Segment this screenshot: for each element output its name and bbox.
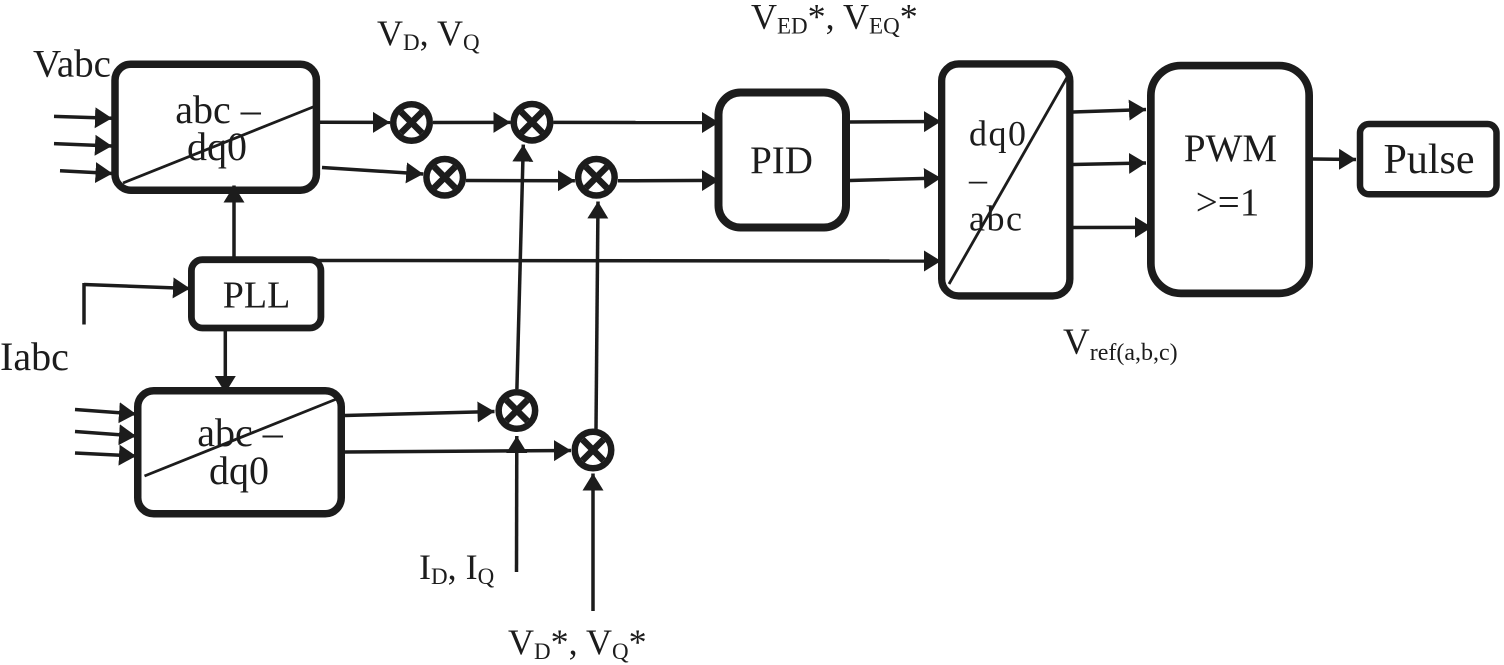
wire multiplier M2 to PID input 1 [554, 121, 720, 125]
wire elbow below PLL input [82, 283, 86, 325]
svg-text:VD, VQ: VD, VQ [377, 13, 480, 55]
wire PLL to dq0-abc (long line) [316, 259, 941, 263]
svg-text:dq0: dq0 [209, 448, 269, 493]
wire PID output 2 to dq0-abc [850, 178, 941, 181]
wire Iabc input 3 [75, 453, 136, 456]
svg-text:>=1: >=1 [1196, 181, 1260, 224]
wire ID IQ vertical feed with arrow into M5 [515, 436, 519, 572]
wire Iabc input 1 [75, 410, 136, 415]
wire PWM to Pulse [1313, 157, 1356, 161]
svg-text:dq0: dq0 [969, 114, 1028, 154]
multiplier M2 [514, 104, 551, 141]
wire Vabc input 1 [54, 116, 112, 118]
svg-text:VED*, VEQ*: VED*, VEQ* [751, 0, 918, 39]
multiplier M6 [575, 432, 612, 469]
block abc-dq0 voltage transform [115, 64, 316, 190]
multiplier M3 [426, 159, 463, 196]
multiplier M4 [578, 159, 615, 196]
text abc - dq0 (current block) [197, 410, 284, 493]
wire Iabc input 2 [75, 432, 136, 437]
diagonal line in current abc-dq0 block [145, 398, 340, 476]
wire Vabc input 3 [60, 171, 113, 174]
text abc - dq0 (voltage block) [175, 87, 262, 169]
wire PID output 1 to dq0-abc [850, 120, 941, 124]
svg-text:PWM: PWM [1184, 127, 1277, 170]
wire voltage block output q to multiplier M3 [322, 168, 423, 175]
wire dq0-abc output c to PWM [1073, 226, 1152, 230]
wire current block output d to multiplier M5 [345, 412, 495, 416]
multiplier M5 [499, 392, 536, 429]
block PID [719, 93, 847, 228]
multiplier M1 [393, 104, 430, 141]
wire VD* VQ* vertical arrow into M6 [591, 474, 595, 612]
svg-text:Vabc: Vabc [33, 43, 111, 86]
wire current block output q to multiplier M6 [345, 451, 571, 453]
svg-text:–: – [968, 159, 988, 199]
svg-text:Pulse: Pulse [1383, 137, 1474, 183]
svg-text:Iabc: Iabc [0, 334, 69, 379]
block PWM [1151, 66, 1309, 294]
wire M5 up to multiplier M2 [517, 145, 523, 389]
svg-text:PID: PID [750, 139, 813, 182]
wire input into PLL [84, 285, 190, 289]
wire PLL down to current abc-dq0 block [224, 329, 228, 393]
wire M6 up to multiplier M4 [596, 202, 598, 430]
svg-text:Vref(a,b,c): Vref(a,b,c) [1063, 322, 1178, 366]
text PWM >=1 [1184, 127, 1277, 224]
block dq0-abc [942, 64, 1070, 296]
block PLL [191, 260, 321, 328]
text dq0 - abc [968, 114, 1028, 239]
block abc-dq0 current transform [138, 391, 342, 514]
svg-text:VD*, VQ*: VD*, VQ* [508, 622, 647, 664]
wire multiplier M4 to PID input 2 [618, 179, 719, 183]
wire PLL up to voltage abc-dq0 block [232, 186, 236, 259]
diagonal line in dq0-abc block [949, 74, 1069, 284]
svg-text:PLL: PLL [223, 275, 291, 317]
wire multiplier M1 to multiplier M2 [433, 121, 511, 125]
wire multiplier M3 to multiplier M4 [466, 179, 575, 183]
wire Vabc input 2 [54, 144, 112, 146]
wire voltage block output d to multiplier M1 [320, 121, 390, 125]
svg-text:ID, IQ: ID, IQ [419, 547, 495, 589]
wire dq0-abc output a to PWM [1073, 110, 1146, 113]
block Pulse [1360, 124, 1497, 194]
diagonal line in voltage abc-dq0 block [123, 105, 318, 183]
wire dq0-abc output b to PWM [1073, 163, 1146, 165]
